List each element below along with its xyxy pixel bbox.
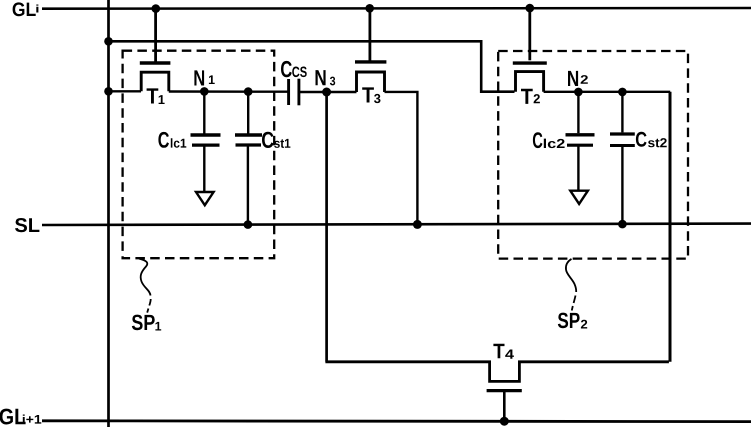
junction dot Cst2 on SL	[618, 220, 627, 229]
capacitor Cst2 stem upper	[621, 92, 623, 132]
transistor T4 gate bar	[487, 389, 522, 392]
wire T4 gate lead to GLi+1	[503, 391, 506, 422]
transistor T3 label	[362, 87, 380, 103]
junction dot T3 drain on SL	[413, 220, 422, 229]
capacitor Clc2 stem lower	[577, 146, 579, 190]
node N2 junction dot	[574, 88, 583, 97]
node N3 label	[316, 70, 336, 85]
net GLi label	[13, 2, 39, 16]
capacitor Cst2 stem lower to SL	[621, 147, 623, 224]
net SL label	[15, 218, 39, 232]
capacitor Cst1 stem lower to SL	[247, 146, 249, 224]
capacitor Clc1 stem lower	[203, 146, 205, 192]
wire from data line to T2 source	[109, 41, 515, 91]
wire node N3 drop to T4	[325, 92, 328, 362]
dashed box SP2	[498, 51, 688, 259]
net SL bus wire	[42, 224, 751, 225]
transistor T2 channel bump	[516, 72, 544, 92]
transistor T3 gate bar	[355, 60, 386, 63]
capacitor Cst2 top plate	[610, 132, 635, 135]
transistor T1 label	[147, 88, 165, 104]
dashed box SP1	[123, 51, 275, 259]
node N1 label	[194, 70, 214, 85]
transistor T1 gate bar	[140, 61, 171, 65]
capacitor Cst1 top plate	[235, 133, 262, 136]
wire T2 drain to node N2	[544, 91, 671, 93]
transistor T4 channel with notch	[325, 362, 669, 382]
capacitor Cst1 stem upper	[247, 92, 249, 134]
net GLi bus wire	[42, 7, 751, 10]
wire T3 gate lead	[368, 8, 371, 60]
capacitor Clc2 label	[533, 132, 565, 148]
ground symbol under Clc1	[196, 192, 214, 205]
junction dot T2 gate tap on GLi	[526, 4, 535, 13]
capacitor Clc1 stem upper	[203, 91, 205, 133]
capacitor Cst2 label	[636, 132, 667, 148]
node N1 junction dot	[200, 87, 209, 96]
ground symbol under Clc2	[570, 191, 588, 204]
junction dot T1 source on data line	[104, 87, 113, 96]
node N2 label	[568, 71, 588, 86]
junction dot Cst1 tap	[244, 87, 253, 96]
net GLi+1 bus wire	[42, 419, 751, 423]
wire T3 drain down to SL	[385, 92, 418, 225]
capacitor Cst1 bottom plate	[236, 143, 262, 146]
wire data line vertical	[107, 0, 110, 427]
capacitor Ccs label	[281, 61, 307, 77]
capacitor Clc1 top plate	[191, 133, 221, 136]
inspection point SP1 label	[132, 315, 161, 331]
wire T1 drain to node N1 and Ccs	[169, 90, 289, 93]
transistor T4 label	[493, 344, 514, 359]
capacitor Ccs right plate	[297, 79, 300, 106]
wire right drop from N2 corner to T4	[669, 92, 672, 362]
inspection point SP2 label	[558, 313, 587, 329]
junction dot Cst2 tap	[618, 88, 627, 97]
junction dot T4 gate on GLi+1	[500, 417, 509, 426]
junction dot T1 gate tap on GLi	[152, 4, 161, 13]
wire T1 source from data line	[109, 90, 142, 92]
capacitor Clc2 top plate	[566, 133, 595, 136]
wire T2 gate lead	[528, 8, 531, 60]
wire Ccs right plate to node N3	[299, 91, 357, 93]
node N3 junction dot	[322, 88, 331, 97]
transistor T2 gate bar	[513, 61, 547, 64]
wire T1 gate lead	[154, 9, 157, 62]
SP1 leader squiggle	[139, 259, 151, 296]
junction dot Cst1 on SL	[244, 220, 253, 229]
capacitor Cst2 bottom plate	[610, 144, 635, 147]
capacitor Clc1 label	[158, 132, 186, 148]
capacitor Clc2 bottom plate	[567, 144, 593, 147]
junction dot on data line	[104, 37, 113, 46]
SP2 leader squiggle	[566, 259, 576, 292]
capacitor Cst1 label	[262, 132, 290, 148]
capacitor Clc1 bottom plate	[192, 144, 220, 147]
capacitor Ccs left plate	[287, 79, 290, 105]
capacitor Clc2 stem upper	[577, 92, 579, 133]
transistor T1 channel bump	[141, 72, 169, 91]
junction dot T3 gate tap on GLi	[365, 4, 374, 13]
transistor T2 label	[521, 89, 540, 104]
transistor T3 channel bump	[357, 72, 385, 92]
net GLi+1 label	[0, 409, 41, 425]
